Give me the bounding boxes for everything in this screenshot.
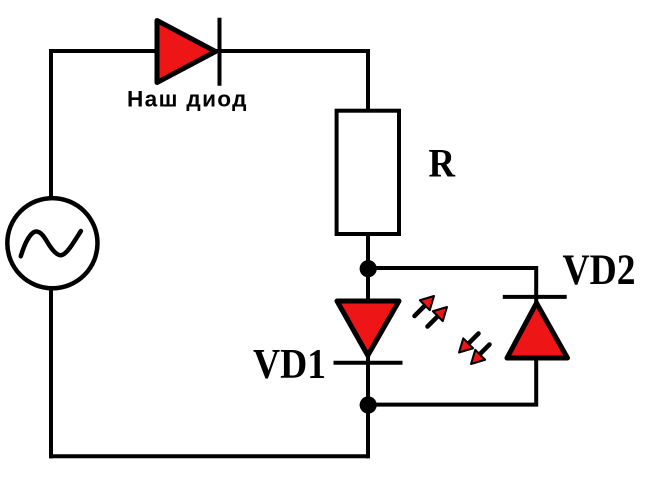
svg-text:VD2: VD2 — [563, 247, 636, 294]
svg-text:R: R — [429, 141, 457, 186]
svg-text:VD1: VD1 — [253, 342, 326, 388]
svg-text:Наш диод: Наш диод — [127, 86, 247, 111]
